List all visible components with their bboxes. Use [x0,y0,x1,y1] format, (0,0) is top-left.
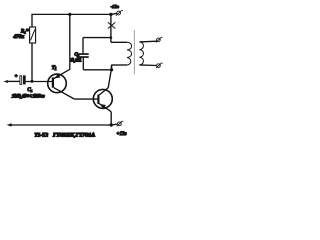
transformer core [133,30,135,75]
wire [112,64,127,66]
svg-text:ГТ402Ж,ГТ701А: ГТ402Ж,ГТ701А [52,133,95,138]
wire [111,13,117,14]
wire (bottom rail) [11,124,111,126]
wire [31,43,33,81]
wire (top rail) [31,13,111,15]
capacitor C2 [77,53,89,58]
bottom rail arrow [7,123,12,126]
wire [110,14,112,42]
node [109,13,112,16]
node [68,13,71,16]
svg-text:+: + [14,75,17,80]
node [110,36,113,39]
wire [139,64,156,67]
wire (T1 emitter to top rail) [69,14,71,69]
svg-text:+12в: +12в [116,132,127,137]
wire (C2 loop top) [83,37,111,39]
transformer primary winding [127,42,132,65]
svg-text:0,01: 0,01 [71,59,82,64]
transformer secondary winding [139,42,143,65]
capacitor C1 [20,75,26,84]
node [110,68,113,71]
wire [111,123,117,126]
resistor R1 [30,27,36,43]
wire (T2 emitter to bottom rail) [110,111,111,125]
svg-text:C1: C1 [27,88,32,93]
input arrow [4,80,8,83]
wire [82,58,84,70]
wire [7,80,20,82]
wire (T1 collector to T2 base) [75,98,98,100]
svg-text:T1: T1 [52,65,57,71]
wire (C2 loop bottom) [83,69,111,71]
wire [139,40,156,43]
node [110,123,113,126]
X mark (selected-value cross) [108,22,115,28]
terminal -12v [116,10,123,15]
terminal +12v [117,121,124,126]
wire [82,38,84,54]
node (R1/C1/T1 base junction) [31,80,34,83]
wire [31,14,33,27]
terminal (secondary top) [156,37,163,42]
svg-text:470к: 470к [13,35,24,40]
svg-text:Т1-Т2: Т1-Т2 [35,133,49,138]
wire [26,81,52,83]
svg-text:-12в: -12в [111,4,119,9]
transistor T1 [48,69,75,99]
terminal (secondary bottom) [156,63,163,68]
svg-text:10,0×10в: 10,0×10в [12,94,45,99]
svg-text:R1*: R1* [20,30,29,35]
wire [111,65,113,71]
wire [111,41,127,43]
transistor T2 [93,65,112,111]
svg-text:C2: C2 [74,52,79,58]
